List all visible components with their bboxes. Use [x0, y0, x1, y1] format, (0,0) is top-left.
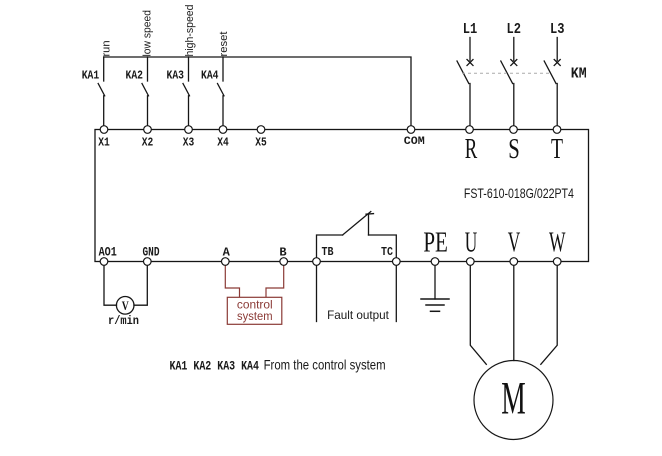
- svg-text:low speed: low speed: [141, 10, 153, 57]
- control system red wiring A: [225, 265, 239, 297]
- svg-text:U: U: [465, 228, 478, 259]
- terminal A: [222, 258, 230, 266]
- svg-text:FST-610-018G/022PT4: FST-610-018G/022PT4: [464, 185, 574, 201]
- terminal T: [553, 126, 561, 134]
- terminal GND: [144, 258, 152, 266]
- terminal U: [467, 258, 475, 266]
- svg-text:X5: X5: [255, 136, 267, 150]
- ground symbol: [421, 299, 449, 311]
- terminal B: [280, 258, 288, 266]
- svg-text:M: M: [501, 374, 526, 425]
- svg-text:TC: TC: [381, 245, 393, 259]
- svg-text:V: V: [122, 298, 129, 313]
- terminal TB: [313, 258, 321, 266]
- wire TC down: [395, 265, 397, 321]
- terminal X3: [185, 126, 193, 134]
- wire W to motor: [541, 265, 557, 364]
- inverter box FST-610: [95, 130, 589, 262]
- svg-text:R: R: [465, 134, 478, 165]
- terminal TC: [393, 258, 401, 266]
- svg-text:X4: X4: [217, 136, 229, 150]
- svg-text:PE: PE: [423, 228, 448, 259]
- terminal X2: [144, 126, 152, 134]
- svg-text:X3: X3: [183, 136, 195, 150]
- svg-text:high-speed: high-speed: [184, 5, 196, 57]
- contact KA2: [142, 57, 149, 126]
- svg-text:Fault output: Fault output: [327, 309, 389, 322]
- terminal PE: [431, 258, 439, 266]
- control system red wiring B: [266, 265, 284, 297]
- svg-text:KA1 KA2 KA3 KA4: KA1 KA2 KA3 KA4: [170, 360, 260, 374]
- terminal X5: [257, 126, 265, 134]
- svg-text:KA1: KA1: [82, 69, 100, 83]
- svg-text:X2: X2: [142, 136, 154, 150]
- terminal COM: [407, 126, 415, 134]
- terminal X4: [219, 126, 227, 134]
- terminal X1: [100, 126, 108, 134]
- wire U to motor: [470, 265, 486, 364]
- wire AO1 to meter: [104, 265, 117, 305]
- svg-text:W: W: [549, 228, 566, 259]
- svg-text:V: V: [508, 228, 521, 259]
- svg-text:B: B: [279, 246, 286, 260]
- svg-text:AO1: AO1: [99, 245, 117, 260]
- contact KA3: [183, 57, 190, 126]
- terminals top edge: [100, 126, 561, 266]
- svg-text:KA2: KA2: [126, 69, 144, 83]
- svg-text:system: system: [237, 309, 273, 323]
- svg-text:r/min: r/min: [108, 315, 139, 328]
- motor M circle: [474, 361, 553, 440]
- svg-text:run: run: [100, 41, 112, 57]
- svg-text:X1: X1: [98, 136, 110, 150]
- breaker pole L3: [544, 38, 560, 126]
- svg-text:L1: L1: [463, 22, 478, 38]
- terminal AO1: [100, 258, 108, 266]
- wire top bus to COM: [104, 57, 411, 126]
- meter V circle: [116, 297, 134, 315]
- wire PE to ground: [434, 265, 436, 299]
- contact KA4: [218, 57, 225, 126]
- fault contact TB-TC: [317, 212, 397, 258]
- control system box: [227, 297, 281, 324]
- breaker pole L1: [457, 38, 473, 126]
- svg-text:GND: GND: [143, 245, 160, 260]
- svg-text:reset: reset: [218, 32, 230, 57]
- wire V to motor: [513, 265, 515, 360]
- terminal V: [510, 258, 518, 266]
- terminal W: [553, 258, 561, 266]
- svg-text:S: S: [508, 134, 520, 165]
- terminal S: [510, 126, 518, 134]
- svg-text:From the control system: From the control system: [264, 357, 386, 373]
- wire TB down: [316, 265, 318, 321]
- svg-text:KA3: KA3: [167, 69, 185, 83]
- svg-text:T: T: [551, 134, 563, 165]
- KM linkage dashed line: [462, 72, 552, 74]
- svg-text:A: A: [223, 246, 231, 260]
- contact KA1: [98, 57, 105, 126]
- svg-text:KA4: KA4: [201, 69, 219, 83]
- svg-text:L2: L2: [507, 22, 522, 38]
- svg-text:COM: COM: [404, 136, 425, 148]
- svg-text:L3: L3: [550, 22, 565, 38]
- svg-text:KM: KM: [571, 67, 587, 83]
- terminal R: [466, 126, 474, 134]
- wire GND to meter: [134, 265, 147, 305]
- svg-text:TB: TB: [322, 245, 334, 259]
- breaker pole L2: [501, 38, 517, 126]
